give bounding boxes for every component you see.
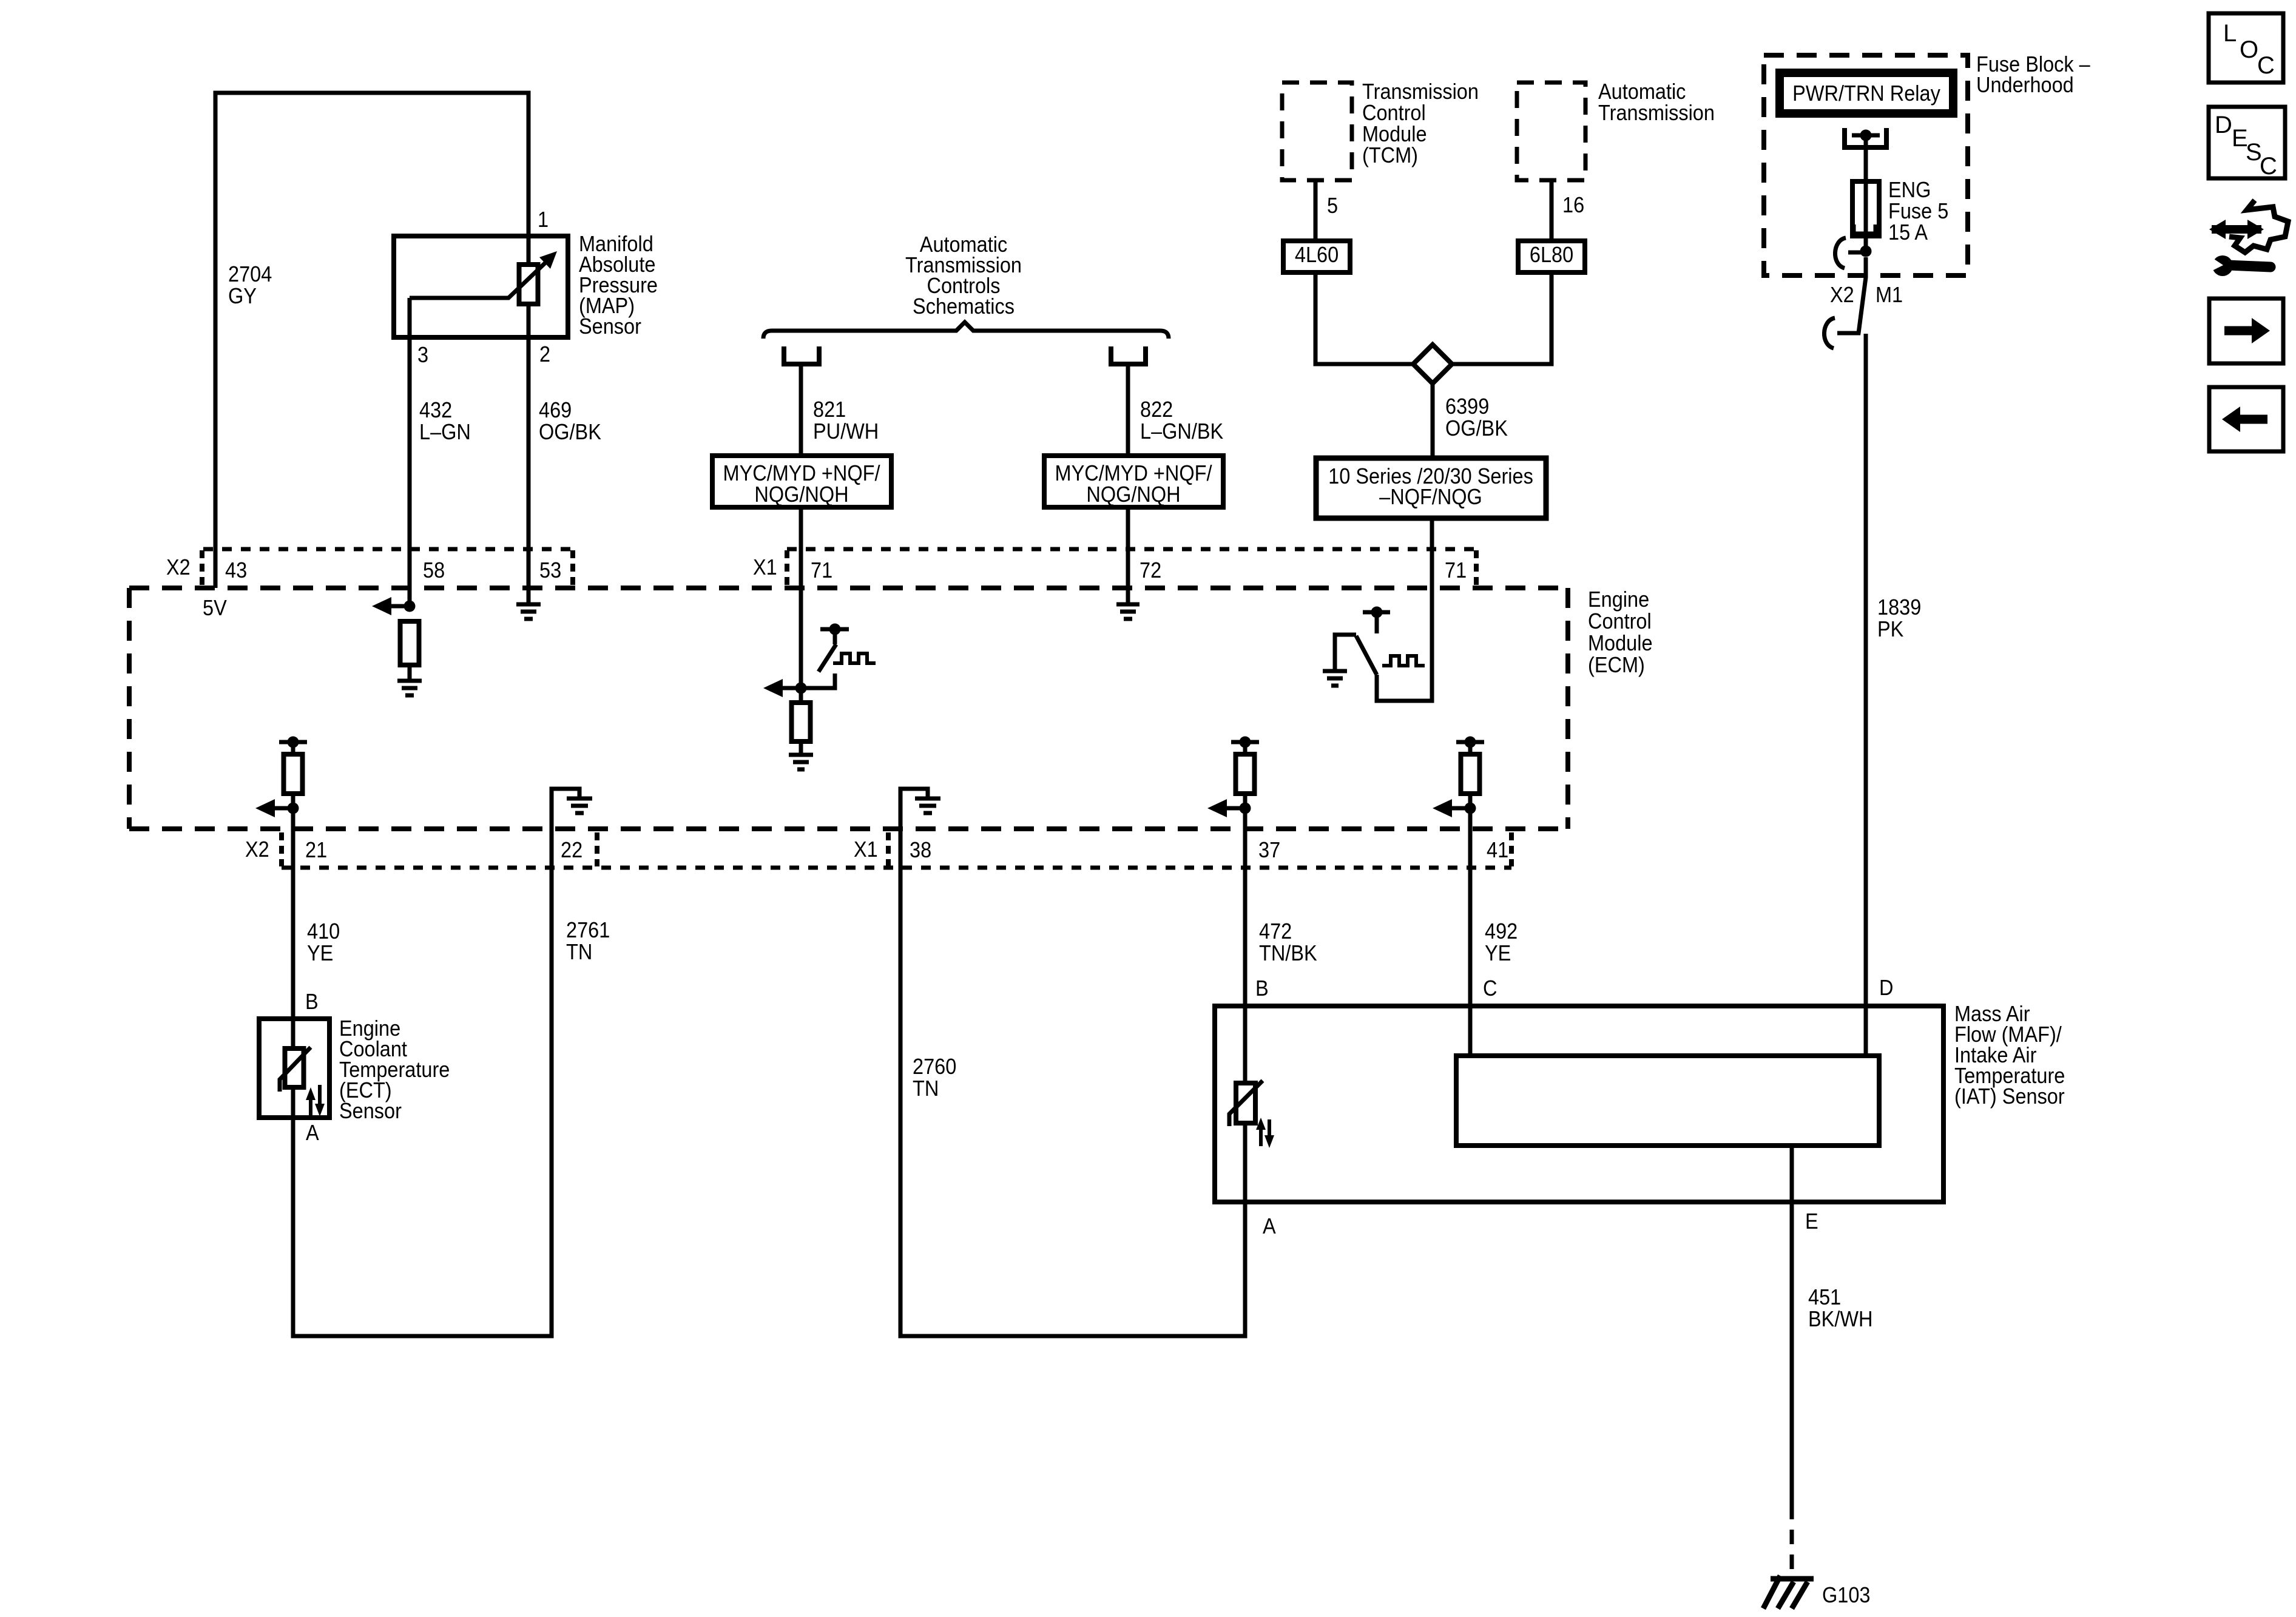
svg-text:Transmission: Transmission: [1598, 101, 1715, 125]
MAP sensor box: [394, 236, 568, 337]
label Manifold Absolute Pressure (MAP) Sensor: [579, 232, 658, 339]
svg-text:PU/WH: PU/WH: [813, 419, 879, 444]
legend icon LOC: [2209, 13, 2283, 83]
svg-text:2760: 2760: [913, 1055, 956, 1079]
MAF element inner box: [1456, 1056, 1879, 1146]
svg-text:469: 469: [539, 398, 572, 422]
svg-text:C: C: [2260, 153, 2277, 180]
arrow (pin 21 signal): [255, 799, 293, 817]
wire 821 to ECM pin 71: [799, 507, 803, 703]
TCM dashed box: [1282, 83, 1352, 180]
junction (fuse output): [1860, 246, 1872, 257]
legend icon arrow right: [2209, 299, 2283, 363]
label wire 2760 TN: [913, 1055, 956, 1101]
svg-text:(TCM): (TCM): [1362, 143, 1418, 167]
svg-text:X1: X1: [753, 555, 777, 579]
svg-text:X2: X2: [245, 837, 269, 862]
terminal tee (relay output): [1852, 130, 1880, 141]
wire relay to fuse: [1864, 135, 1868, 251]
label Automatic Transmission Controls Schematics: [905, 232, 1022, 319]
option box MYC/MYD +NQF/NQG/NQH (left): [712, 456, 891, 507]
svg-text:GY: GY: [228, 284, 257, 308]
wire 1839 PK (fuse to MAF pin D): [1864, 334, 1868, 1056]
wire 6L80 to splice diamond: [1452, 272, 1551, 364]
label Engine Control Module (ECM): [1588, 587, 1653, 677]
svg-text:NQG/NQH: NQG/NQH: [1086, 482, 1180, 507]
legend icon wrench/part: [2205, 200, 2288, 276]
ECM module dashed box: [129, 588, 1568, 829]
half-connector (wire 822 from ATC schematics): [1111, 346, 1146, 364]
wire 432 L-GN (MAP pin 3 to ECM pin 58): [408, 298, 412, 606]
thermistor (ECT element): [285, 1048, 304, 1087]
label Automatic Transmission: [1598, 79, 1715, 125]
svg-text:492: 492: [1485, 919, 1518, 944]
svg-text:2761: 2761: [566, 918, 610, 942]
wire pin 38 ground hook: [900, 789, 928, 829]
label wire 6399 OG/BK: [1445, 394, 1508, 441]
wire tee to resistor: [291, 742, 295, 754]
legend icon arrow left: [2209, 387, 2283, 451]
label Mass Air Flow (MAF)/Intake Air Temperature (IAT) Sensor: [1954, 1002, 2065, 1109]
terminal tee (pin 37 pull-up): [1231, 737, 1259, 748]
label Engine Coolant Temperature (ECT) Sensor: [339, 1016, 450, 1123]
legend icon DESC: [2209, 107, 2285, 180]
arrow (pin 58 signal): [372, 597, 410, 615]
PWM signal glyph (pin 71 right): [1382, 656, 1425, 666]
svg-text:B: B: [305, 990, 319, 1014]
ground (ECM pin 53): [516, 604, 541, 619]
svg-text:D: D: [2215, 112, 2232, 138]
svg-text:BK/WH: BK/WH: [1808, 1307, 1872, 1331]
wire 4L60 to splice diamond: [1315, 272, 1413, 364]
svg-text:NQG/NQH: NQG/NQH: [754, 482, 848, 507]
svg-text:1: 1: [538, 208, 549, 232]
svg-text:(IAT) Sensor: (IAT) Sensor: [1954, 1084, 2065, 1109]
arrow (pin 37 signal): [1207, 799, 1245, 817]
svg-text:C: C: [2257, 52, 2275, 79]
svg-text:37: 37: [1258, 838, 1280, 862]
svg-text:X2: X2: [166, 555, 191, 579]
splice diamond: [1413, 345, 1452, 383]
svg-text:L–GN/BK: L–GN/BK: [1140, 419, 1223, 444]
arrow (pin 71 signal): [763, 679, 801, 697]
label wire 451 BK/WH: [1808, 1285, 1872, 1331]
svg-text:B: B: [1255, 976, 1269, 1001]
svg-text:432: 432: [419, 398, 452, 422]
wire AT pin 16: [1550, 180, 1554, 241]
svg-text:YE: YE: [307, 941, 333, 965]
thermistor strike arrow: [280, 1047, 311, 1092]
svg-text:L–GN: L–GN: [419, 420, 471, 444]
svg-text:Underhood: Underhood: [1976, 73, 2074, 97]
wire resistor to ground: [408, 665, 412, 681]
Automatic Transmission dashed box: [1517, 83, 1585, 180]
svg-text:–NQF/NQG: –NQF/NQG: [1379, 485, 1482, 509]
svg-text:472: 472: [1259, 919, 1292, 944]
brace: [763, 322, 1169, 339]
junction (pin 41): [1465, 803, 1476, 814]
svg-text:3: 3: [417, 343, 428, 367]
svg-text:410: 410: [307, 919, 340, 944]
svg-text:L: L: [2223, 20, 2237, 47]
wire MAP internal (pin 3 to element): [410, 261, 547, 298]
arrow (pin 41 signal): [1433, 799, 1470, 817]
resistor (pin 71 driver): [792, 703, 811, 741]
label wire 410 YE: [307, 919, 340, 965]
resistor (pin 41 pull-up): [1461, 754, 1480, 794]
svg-text:X2: X2: [1830, 283, 1854, 307]
svg-text:PWR/TRN Relay: PWR/TRN Relay: [1792, 81, 1940, 106]
label wire 469 OG/BK: [539, 398, 601, 444]
svg-text:E: E: [1805, 1209, 1818, 1234]
label Transmission Control Module (TCM): [1362, 79, 1479, 167]
ground (right driver): [1323, 671, 1347, 686]
in-line connector X2/M1: [1824, 238, 1866, 348]
svg-text:43: 43: [225, 558, 247, 582]
ground (pin 58 resistor): [397, 681, 422, 695]
arrowhead (variable element arrow): [539, 251, 557, 269]
wire 472 TN/BK (pin 37 to MAF pin B): [1243, 808, 1248, 1083]
wire 2704 GY (5V supply loop, pin 43 to MAP pin 1): [215, 93, 528, 588]
svg-text:41: 41: [1487, 838, 1508, 862]
ground (ECM pin 22): [567, 798, 592, 813]
fuse ENG Fuse 5 15 A: [1852, 181, 1879, 236]
svg-text:71: 71: [811, 558, 832, 582]
svg-text:OG/BK: OG/BK: [539, 420, 601, 444]
svg-text:G103: G103: [1822, 1583, 1870, 1607]
svg-text:1839: 1839: [1877, 595, 1921, 619]
svg-text:Module: Module: [1588, 631, 1653, 655]
svg-text:OG/BK: OG/BK: [1445, 416, 1508, 441]
wire 822 to ECM pin 72: [1126, 507, 1130, 604]
junction (pin 21): [288, 803, 299, 814]
label Fuse Block - Underhood: [1976, 52, 2090, 97]
wire 6399 OG/BK: [1431, 383, 1435, 458]
wire 6399 to ECM pin 71 (right): [1430, 518, 1434, 588]
svg-text:TN: TN: [913, 1076, 939, 1101]
junction (pin 71): [795, 683, 807, 694]
driver (ECM pin 71 input, right): [1335, 588, 1432, 701]
svg-text:YE: YE: [1485, 941, 1511, 965]
svg-text:Engine: Engine: [1588, 587, 1649, 612]
svg-text:71: 71: [1445, 558, 1467, 582]
resistor (pin 37 pull-up): [1236, 754, 1255, 794]
svg-text:6L80: 6L80: [1530, 243, 1573, 267]
terminal tee (pin 41 pull-up): [1456, 737, 1484, 748]
ground (ECM pin 38): [915, 798, 940, 813]
resistor (MAP sense element): [519, 265, 538, 304]
wire 469 OG/BK (MAP pin 2 to ECM pin 53): [527, 304, 531, 588]
svg-text:58: 58: [423, 558, 445, 582]
svg-text:2: 2: [539, 342, 550, 366]
svg-text:Sensor: Sensor: [339, 1099, 402, 1123]
wire 821 PU/WH: [799, 364, 803, 456]
ECT sensor box: [259, 1019, 329, 1118]
svg-text:821: 821: [813, 397, 846, 422]
terminal tee (pin 21 pull-up): [279, 737, 307, 748]
PWM signal glyph (pin 71 left): [833, 653, 876, 663]
wire TCM pin 5: [1314, 180, 1318, 241]
svg-text:2704: 2704: [228, 262, 272, 286]
arrows up/down (ECT response): [306, 1085, 325, 1116]
label wire 2704 GY: [228, 262, 272, 308]
option box MYC/MYD +NQF/NQG/NQH (right): [1044, 456, 1223, 507]
connector band X2 (pins 43/58/53): [202, 549, 573, 586]
svg-text:15 A: 15 A: [1888, 220, 1928, 245]
arrows up/down (IAT response): [1256, 1118, 1274, 1148]
wire 822 L-GN/BK: [1126, 364, 1130, 456]
label wire 2761 TN: [566, 918, 610, 964]
svg-text:C: C: [1483, 976, 1497, 1001]
Fuse Block - Underhood dashed box: [1764, 55, 1968, 275]
svg-text:6399: 6399: [1445, 394, 1489, 419]
svg-text:PK: PK: [1877, 617, 1903, 641]
svg-text:A: A: [306, 1121, 319, 1145]
svg-text:822: 822: [1140, 397, 1173, 422]
wire 451 BK/WH (MAF pin E to G103): [1790, 1146, 1794, 1505]
wire 492 YE (pin 41 to MAF pin C): [1468, 808, 1473, 1056]
option box 10 Series /20/30 Series -NQF/NQG: [1316, 458, 1546, 518]
svg-text:TN: TN: [566, 940, 592, 964]
option box 6L80: [1518, 241, 1585, 272]
label ENG Fuse 5 15 A: [1888, 178, 1948, 245]
ground (pin 71 resistor): [789, 755, 813, 769]
svg-text:X1: X1: [854, 837, 878, 862]
svg-text:38: 38: [910, 838, 931, 862]
svg-text:53: 53: [539, 558, 561, 582]
ground (ECM pin 72): [1116, 604, 1140, 619]
svg-text:72: 72: [1140, 558, 1161, 582]
svg-text:(ECM): (ECM): [1588, 653, 1645, 677]
resistor (pin 58 pull-up): [400, 621, 419, 665]
junction (pin 37): [1240, 803, 1251, 814]
thermistor (IAT element): [1236, 1083, 1255, 1123]
svg-text:Sensor: Sensor: [579, 314, 641, 339]
svg-text:16: 16: [1562, 193, 1584, 217]
svg-text:22: 22: [561, 838, 582, 862]
svg-text:5: 5: [1327, 194, 1338, 218]
wire 410 YE (pin 21 to ECT pin B): [291, 808, 295, 1048]
wire 2760 TN (pin 38 loop to MAF pin A): [900, 829, 1245, 1336]
svg-text:TN/BK: TN/BK: [1259, 941, 1317, 965]
svg-text:451: 451: [1808, 1285, 1841, 1309]
svg-text:A: A: [1263, 1214, 1276, 1238]
half-connector (relay output terminal): [1845, 128, 1886, 147]
label wire 432 L-GN: [419, 398, 471, 444]
resistor (pin 21 pull-up): [284, 754, 303, 794]
label wire 472 TN/BK: [1259, 919, 1317, 965]
wire resistor to junction: [291, 794, 295, 808]
svg-text:Schematics: Schematics: [913, 294, 1015, 319]
connector band X2 bottom (pins 21/22) and X1 bottom (pins 38/37/41): [282, 832, 1511, 868]
option box 4L60: [1283, 241, 1350, 272]
junction (pin 58): [404, 601, 416, 612]
svg-text:Control: Control: [1588, 609, 1652, 633]
svg-text:4L60: 4L60: [1295, 243, 1339, 267]
label wire 822 L-GN/BK: [1140, 397, 1223, 444]
MAF/IAT sensor box: [1215, 1006, 1943, 1202]
wire 2761 TN (ECT pin A loop to ECM pin 22): [293, 829, 552, 1336]
svg-text:5V: 5V: [203, 596, 227, 620]
label wire 492 YE: [1485, 919, 1518, 965]
svg-text:D: D: [1879, 976, 1893, 1000]
driver (ECM pin 71 output, left): [801, 624, 849, 689]
wire pin 53 ground stub: [527, 588, 531, 604]
thermistor strike arrow (IAT): [1229, 1081, 1263, 1126]
chassis ground G103: [1763, 1576, 1814, 1609]
label wire 821 PU/WH: [813, 397, 879, 444]
wire pin 22 ground hook: [552, 789, 579, 829]
connector band X1 (pins 71/72/71): [787, 549, 1476, 586]
relay PWR/TRN Relay: [1780, 73, 1953, 113]
svg-text:O: O: [2240, 36, 2258, 63]
svg-text:M1: M1: [1876, 283, 1903, 307]
svg-text:21: 21: [305, 838, 327, 862]
half-connector (wire 821 from ATC schematics): [784, 346, 819, 364]
label wire 1839 PK: [1877, 595, 1921, 641]
